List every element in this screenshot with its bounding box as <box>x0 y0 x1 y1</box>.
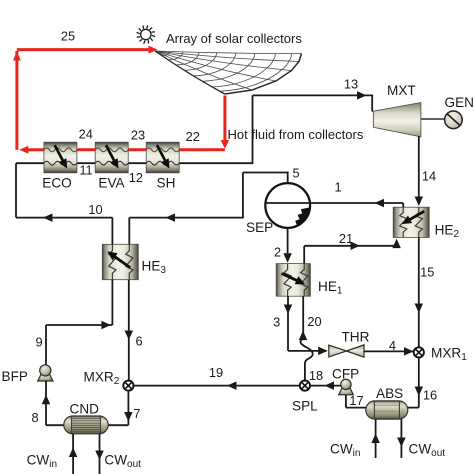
wire stream 9: BFP to HE3 <box>111 280 113 325</box>
sun icon <box>137 25 155 43</box>
wire ABS cooling water inlet <box>375 419 377 458</box>
heat exchanger ECO <box>42 142 77 190</box>
svg-text:24: 24 <box>79 126 93 141</box>
solar collector array mesh <box>155 51 302 94</box>
wire stream 20: SPL to HE1 with line hop <box>300 296 312 381</box>
svg-text:Hot fluid from collectors: Hot fluid from collectors <box>228 127 364 142</box>
wire stream 2: SEP bottom to HE1 <box>287 228 289 261</box>
wire CND cooling water outlet <box>99 434 101 474</box>
wire red downcomer from collector outlet <box>223 96 226 142</box>
wire stream 21: HE1 top to HE2 bottom <box>303 246 305 264</box>
heat exchanger SH <box>146 142 179 190</box>
wire red hot-fluid supply line 25 (top) <box>17 48 150 51</box>
svg-text:19: 19 <box>209 365 223 380</box>
svg-text:11: 11 <box>79 163 92 178</box>
pump CFP <box>332 366 359 394</box>
wire stream 13 riser x=252.5 <box>252 95 254 164</box>
svg-text:GEN: GEN <box>445 95 474 110</box>
svg-text:THR: THR <box>342 330 370 345</box>
wire CND cooling water inlet <box>72 434 74 474</box>
wire stream 16: MXR1 to ABS <box>418 358 420 408</box>
wire stream 18: CFP to SPL <box>310 385 341 387</box>
mixer MXR2 <box>84 369 134 390</box>
pump BFP <box>2 365 54 384</box>
svg-text:8: 8 <box>31 410 38 425</box>
svg-text:18: 18 <box>309 368 323 383</box>
wire ABS cooling water outlet <box>400 419 402 458</box>
wire stream 13 header to turbine <box>253 94 373 96</box>
wire stream 1: SEP chord to HE2 <box>265 202 403 204</box>
generator GEN <box>445 95 474 128</box>
svg-text:20: 20 <box>307 314 321 329</box>
svg-text:9: 9 <box>35 334 42 349</box>
heat exchanger HE1 <box>276 264 343 297</box>
svg-text:SEP: SEP <box>246 220 273 235</box>
wire stream 17: CFP to ABS <box>345 395 347 408</box>
svg-text:7: 7 <box>133 406 140 421</box>
svg-text:SPL: SPL <box>292 399 318 414</box>
wire red left riser of loop 25 <box>15 51 18 150</box>
separator internal wedge <box>295 208 309 226</box>
wire stream 5: SEP top to HE3 <box>287 172 289 184</box>
svg-text:CND: CND <box>70 401 100 416</box>
svg-text:14: 14 <box>422 168 436 183</box>
wire turbine shaft <box>421 118 445 120</box>
svg-text:BFP: BFP <box>2 369 28 384</box>
wire stream 15: HE2 to MXR1 <box>418 237 420 347</box>
svg-text:1: 1 <box>334 179 341 194</box>
heat exchanger HE2 <box>393 207 459 240</box>
svg-text:3: 3 <box>273 314 280 329</box>
svg-text:6: 6 <box>135 333 142 348</box>
absorber ABS vessel <box>366 386 408 419</box>
svg-text:15: 15 <box>420 264 434 279</box>
heat exchanger EVA <box>95 142 128 190</box>
svg-text:ECO: ECO <box>42 175 71 190</box>
svg-text:17: 17 <box>349 393 363 408</box>
wire red return header through SH EVA ECO (segments in gaps) <box>179 148 225 151</box>
heat exchanger HE3 <box>102 244 166 279</box>
wire stream 10 horizontal <box>16 217 112 219</box>
splitter SPL <box>292 381 318 414</box>
wire stream 8: CND to BFP <box>45 381 47 425</box>
svg-text:2: 2 <box>274 244 281 259</box>
svg-text:23: 23 <box>131 127 145 142</box>
svg-text:MXT: MXT <box>387 83 416 98</box>
wire stream 14 turbine exhaust to HE2 <box>418 136 420 204</box>
svg-text:12: 12 <box>129 170 143 185</box>
svg-text:CFP: CFP <box>332 366 359 381</box>
svg-text:4: 4 <box>389 338 396 353</box>
wire stream 3: HE1 to THR <box>287 296 289 351</box>
svg-text:21: 21 <box>339 231 353 246</box>
wire stream 6: HE3 to MXR2 <box>128 280 130 381</box>
wire stream 7: MXR2 to CND <box>127 391 129 426</box>
svg-text:10: 10 <box>88 202 102 217</box>
mixer MXR1 <box>414 345 468 363</box>
turbine MXT <box>373 103 421 137</box>
wire steam line through economizer train y=163 <box>16 162 44 164</box>
throttle valve THR <box>329 330 370 357</box>
svg-text:EVA: EVA <box>98 175 125 190</box>
wire turbine inlet drop <box>371 95 373 112</box>
svg-text:25: 25 <box>61 29 75 44</box>
svg-text:13: 13 <box>344 77 358 92</box>
svg-text:ABS: ABS <box>376 386 403 401</box>
wire stream 19: SPL to MXR2 <box>134 385 301 387</box>
wire stream 4: THR to MXR1 <box>364 350 414 352</box>
wire left feedwater riser x=16 <box>15 163 17 217</box>
svg-text:5: 5 <box>292 166 299 181</box>
svg-text:Array of solar collectors: Array of solar collectors <box>166 31 302 46</box>
svg-text:16: 16 <box>423 387 437 402</box>
svg-text:SH: SH <box>157 175 176 190</box>
separator SEP <box>246 183 310 235</box>
svg-text:22: 22 <box>186 129 200 144</box>
wire stream 10 riser into HE3 <box>111 218 113 245</box>
condenser CND vessel <box>64 401 108 433</box>
